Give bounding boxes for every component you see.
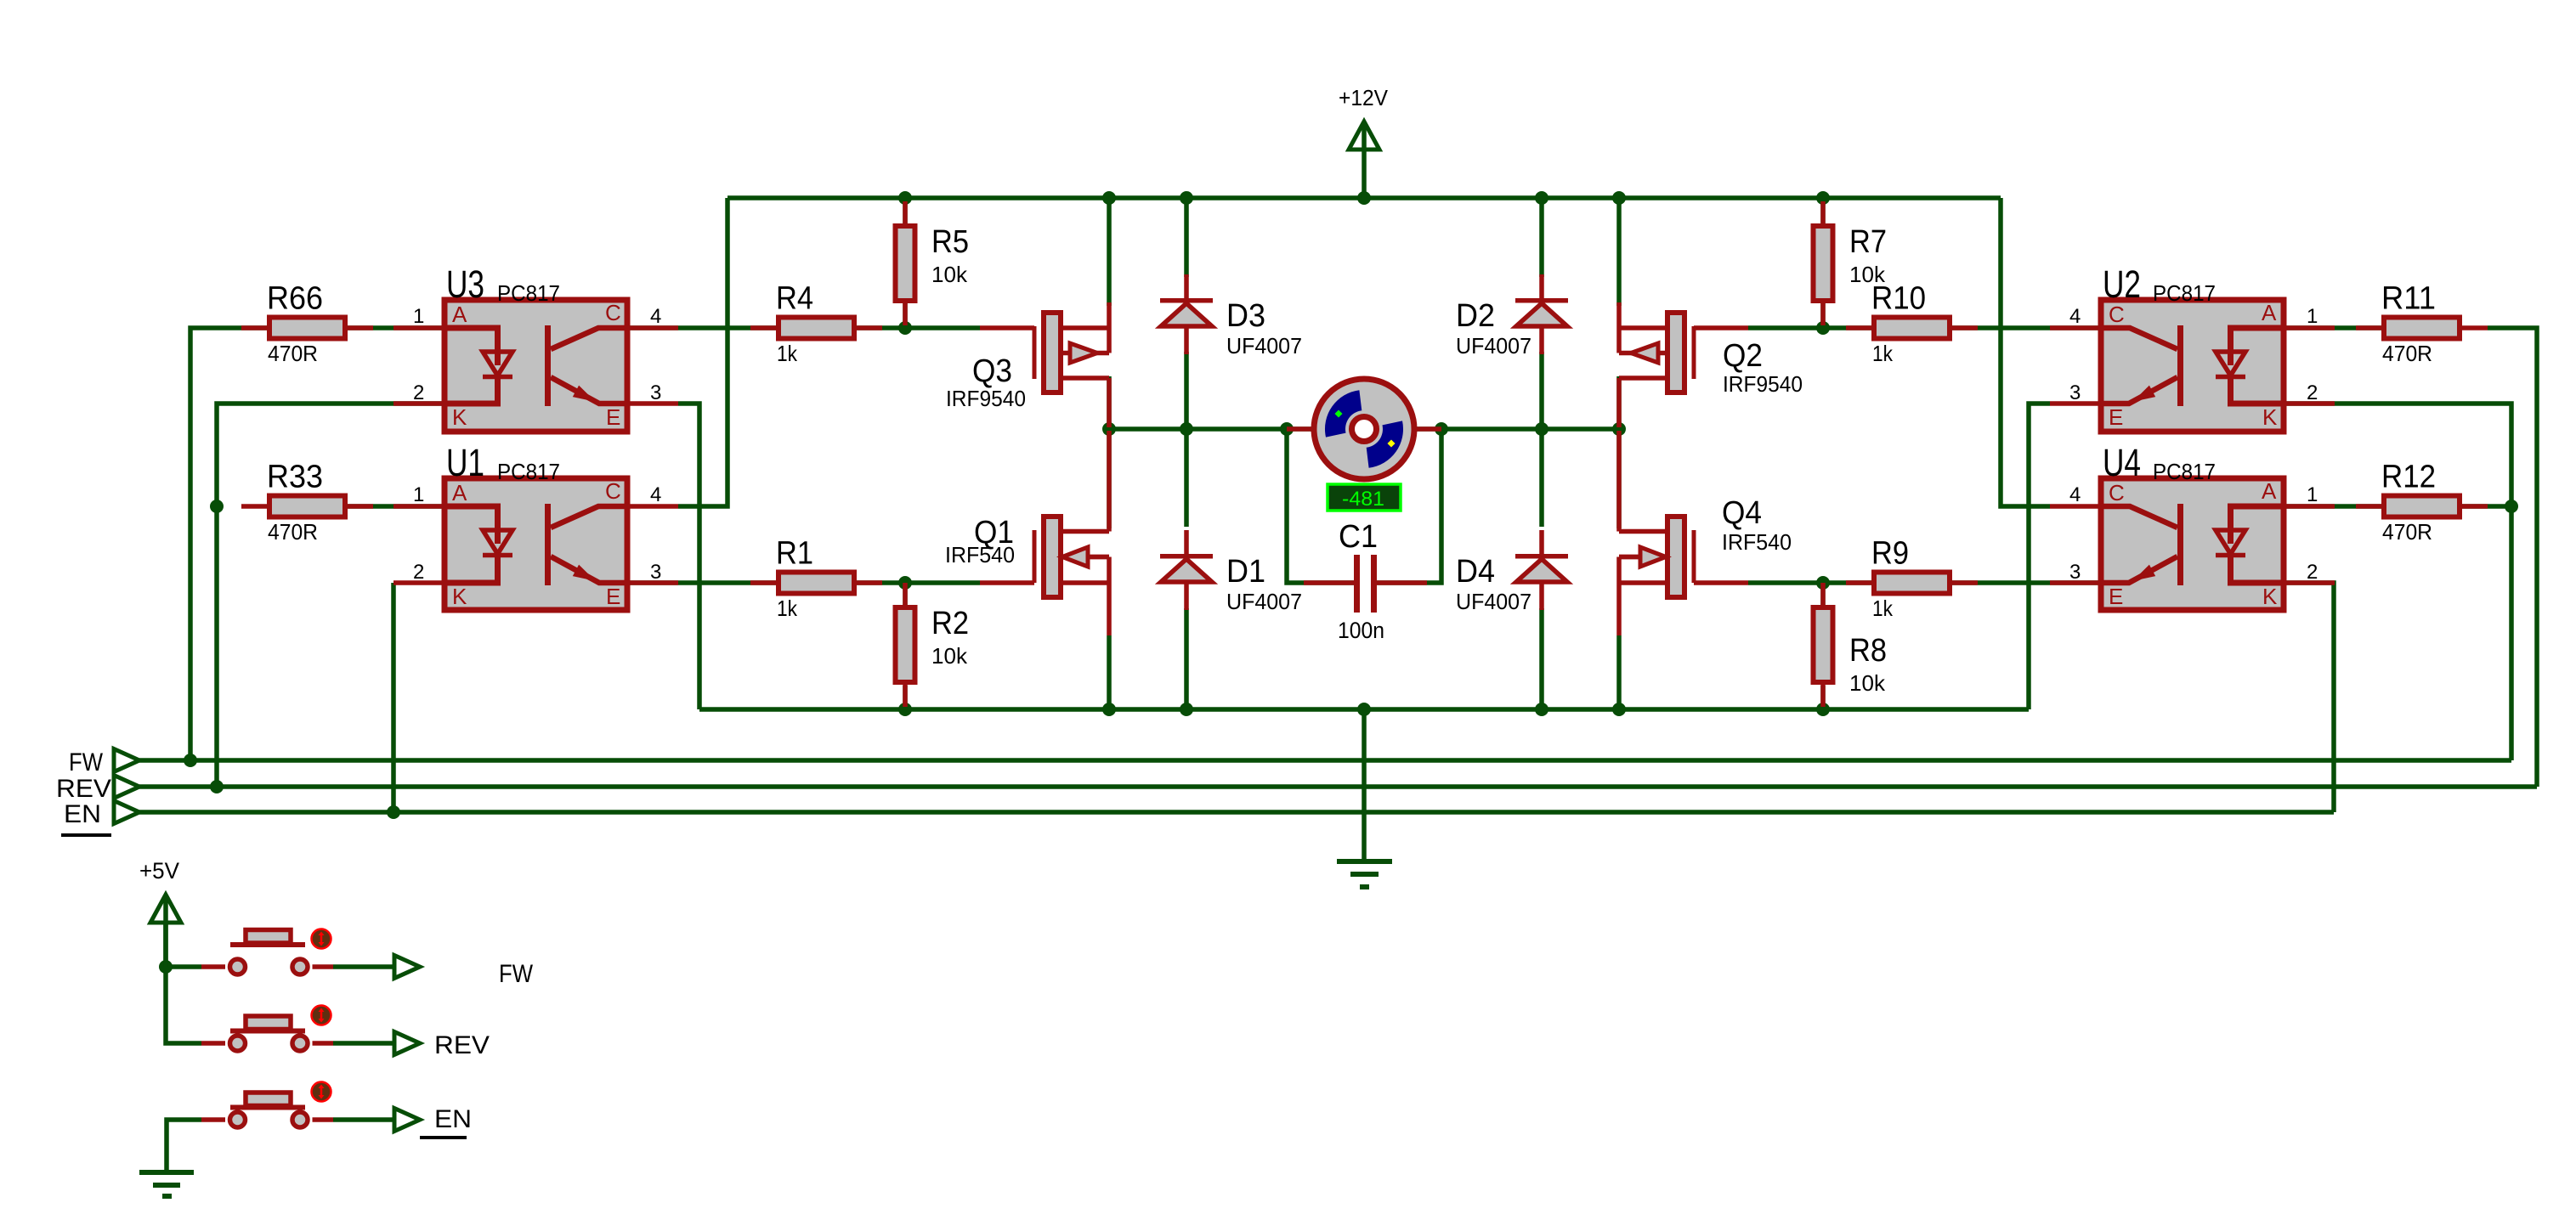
junction dot FW line	[184, 754, 197, 767]
svg-text:1k: 1k	[1872, 341, 1894, 366]
wire U2 pin2 / R12 vertical to FW end	[2284, 404, 2511, 760]
optocoupler U4 phototransistor	[2177, 504, 2183, 585]
svg-text:R66: R66	[267, 281, 323, 317]
wire U3 pin1 to R66	[347, 325, 444, 330]
svg-text:EN: EN	[64, 800, 101, 828]
transistor Q2 IRF9540	[1694, 325, 1748, 330]
wire R1 junction to Q1 gate	[857, 580, 980, 585]
wire REV line	[139, 784, 2537, 789]
resistor R11	[2356, 325, 2381, 330]
svg-text:IRF9540: IRF9540	[946, 386, 1026, 411]
wire FW button right to terminal	[333, 964, 394, 969]
svg-text:1: 1	[413, 305, 424, 328]
wire R8 bottom pin	[1820, 686, 1826, 709]
wire EN button left to ground	[167, 1120, 201, 1172]
svg-text:1k: 1k	[777, 596, 798, 621]
svg-text:1: 1	[413, 483, 424, 506]
junction dot +5V node	[159, 960, 173, 974]
wire U3 emitter to bottom rail left end	[678, 404, 699, 709]
svg-text:R4: R4	[776, 281, 813, 317]
ground button	[139, 1170, 194, 1175]
diode D2 UF4007	[1539, 274, 1544, 298]
svg-text:R8: R8	[1849, 633, 1887, 669]
wire Q3 drain vertical from rail	[1107, 198, 1112, 306]
svg-text:PC817: PC817	[2153, 459, 2216, 484]
ground main	[1337, 859, 1392, 864]
terminal REV button output	[394, 1032, 420, 1055]
svg-text:PC817: PC817	[497, 459, 560, 484]
resistor R8	[1820, 583, 1826, 605]
terminal FW button output	[394, 956, 420, 979]
svg-text:D2: D2	[1456, 298, 1495, 334]
wire U4 pin3 to R9	[1952, 580, 2101, 585]
svg-text:R33: R33	[267, 460, 323, 495]
svg-text:3: 3	[2069, 561, 2081, 584]
svg-text:A: A	[2262, 300, 2277, 325]
junction dot REV line	[210, 780, 224, 793]
svg-text:1: 1	[2307, 305, 2318, 328]
push button FW	[230, 959, 246, 974]
svg-text:4: 4	[2069, 305, 2081, 328]
svg-text:C: C	[605, 478, 621, 504]
svg-text:PC817: PC817	[2153, 280, 2216, 306]
svg-text:470R: 470R	[268, 519, 318, 545]
svg-text:10k: 10k	[931, 262, 968, 287]
wire R7 top pin	[1820, 198, 1826, 223]
svg-text:+5V: +5V	[139, 858, 179, 884]
wire Q1 source to bottom rail	[1107, 635, 1112, 709]
junction dots motor row	[1102, 422, 1116, 436]
svg-text:1: 1	[2307, 483, 2318, 506]
svg-text:R7: R7	[1849, 224, 1887, 260]
svg-text:2: 2	[413, 381, 424, 404]
svg-text:IRF540: IRF540	[945, 542, 1015, 568]
resistor R2	[903, 583, 908, 605]
motor pins	[1287, 426, 1311, 432]
wire top rail left drop to U1 pin4	[678, 198, 728, 506]
wire Q4 drain to motor node	[1616, 429, 1622, 528]
push button FW actuate marker	[312, 929, 331, 949]
svg-text:U2: U2	[2103, 263, 2141, 306]
svg-text:C1: C1	[1339, 519, 1378, 555]
wire U4 pin1 to R12	[2284, 504, 2381, 509]
terminal REV	[114, 776, 139, 799]
wire R2 bottom pin	[903, 686, 908, 709]
wire bottom rail (bridge ground bus)	[699, 707, 2029, 712]
terminal EN button output	[394, 1109, 420, 1132]
wire U3 pin4 to R4	[627, 325, 776, 330]
motor rotor dots	[1334, 409, 1342, 417]
diode D1 UF4007	[1184, 530, 1189, 554]
optocoupler U3 LED	[483, 352, 512, 376]
svg-text:D3: D3	[1226, 298, 1265, 334]
svg-text:E: E	[2109, 584, 2123, 609]
terminal FW	[114, 749, 139, 772]
wire R7 bottom pin	[1820, 303, 1826, 328]
svg-text:FW: FW	[499, 960, 534, 988]
wire Q2 drain vertical from rail	[1616, 198, 1622, 306]
svg-text:E: E	[2109, 404, 2123, 430]
svg-text:UF4007: UF4007	[1226, 589, 1302, 614]
wire Q2 gate to R7 junction	[1748, 325, 1871, 330]
wire EN line	[139, 810, 2334, 815]
wire Q4 gate to R9 junction	[1748, 580, 1871, 585]
junction dot R9/R8 gate node	[1816, 576, 1830, 590]
capacitor C1	[1304, 580, 1354, 585]
svg-text:3: 3	[2069, 381, 2081, 404]
svg-text:+12V: +12V	[1339, 85, 1389, 110]
svg-text:2: 2	[2307, 561, 2318, 584]
svg-text:4: 4	[650, 483, 661, 506]
svg-text:IRF540: IRF540	[1722, 529, 1792, 555]
diode D3 UF4007	[1184, 274, 1189, 298]
svg-text:10k: 10k	[1849, 670, 1886, 696]
wire R66 input vertical	[190, 328, 267, 760]
svg-text:REV: REV	[56, 775, 111, 803]
wire U1 pin1 to R33	[347, 504, 444, 509]
resistor R33	[241, 504, 267, 509]
svg-text:EN: EN	[434, 1105, 472, 1133]
svg-text:1k: 1k	[1872, 596, 1894, 621]
svg-text:UF4007: UF4007	[1456, 333, 1531, 359]
resistor R12	[2356, 504, 2381, 509]
svg-text:U4: U4	[2103, 441, 2141, 484]
svg-text:4: 4	[650, 305, 661, 328]
diode D4 UF4007	[1539, 530, 1544, 554]
optocoupler U1 LED	[483, 530, 512, 554]
optocoupler U4 PC817 body	[2101, 478, 2284, 610]
svg-text:-481: -481	[1342, 488, 1384, 511]
wire R2 top pin	[903, 583, 908, 605]
wire C1 left branch	[1287, 429, 1354, 583]
wire U2 pin1 to R11	[2284, 325, 2381, 330]
wire R33 / U3 pin2 vertical to REV	[217, 404, 444, 787]
optocoupler U3 PC817 body	[444, 300, 627, 432]
wire R4 junction to Q3 gate	[857, 325, 980, 330]
svg-text:UF4007: UF4007	[1456, 589, 1531, 614]
svg-text:U3: U3	[446, 263, 484, 306]
svg-text:10k: 10k	[1849, 262, 1886, 287]
optocoupler U4 pins	[2050, 504, 2101, 509]
svg-text:4: 4	[2069, 483, 2081, 506]
wire REV button right to terminal	[333, 1041, 394, 1046]
wire Q1 drain to motor node	[1107, 429, 1112, 528]
wire C1 right branch	[1377, 429, 1441, 583]
svg-text:D4: D4	[1456, 554, 1495, 590]
svg-text:2: 2	[2307, 381, 2318, 404]
svg-text:REV: REV	[434, 1031, 490, 1059]
wire D3 vertical	[1184, 198, 1189, 277]
svg-text:470R: 470R	[268, 341, 318, 366]
svg-text:K: K	[452, 404, 467, 430]
motor rotor segments	[1325, 390, 1362, 437]
svg-text:K: K	[452, 584, 467, 609]
svg-text:E: E	[606, 584, 620, 609]
junction dot R4/R5 gate node	[898, 321, 912, 335]
optocoupler U2 LED	[2216, 352, 2245, 376]
wire top rail right drop to U4 pin4	[2001, 198, 2050, 506]
resistor R10	[1846, 325, 1871, 330]
junction dot R1/R2 gate node	[898, 576, 912, 590]
optocoupler U2 pins	[2050, 325, 2101, 330]
wire ground stem from bottom rail	[1362, 709, 1367, 861]
wire R8 top pin	[1820, 583, 1826, 605]
svg-text:C: C	[605, 300, 621, 325]
svg-text:R11: R11	[2381, 281, 2436, 317]
svg-text:470R: 470R	[2382, 341, 2432, 366]
junction dots bottom rail	[898, 703, 912, 716]
optocoupler U1 phototransistor	[545, 504, 551, 585]
svg-text:1k: 1k	[777, 341, 798, 366]
svg-text:K: K	[2262, 584, 2278, 609]
svg-text:IRF9540: IRF9540	[1723, 371, 1803, 397]
junction dot R33 node	[210, 500, 224, 513]
svg-text:PC817: PC817	[497, 280, 560, 306]
junction dot R7/R10 gate node	[1816, 321, 1830, 335]
wire EN button right to terminal	[333, 1117, 394, 1122]
transistor Q3 IRF9540	[980, 325, 1034, 330]
svg-text:FW: FW	[69, 748, 104, 776]
resistor R4	[750, 325, 776, 330]
svg-text:100n: 100n	[1338, 618, 1384, 643]
wire FW line	[139, 758, 2511, 763]
svg-text:R2: R2	[931, 606, 969, 641]
optocoupler U1 PC817 body	[444, 478, 627, 610]
wire U4 pin2 vertical to EN end	[2284, 583, 2334, 812]
wire R11 right vertical to REV end	[2488, 328, 2537, 787]
svg-text:Q4: Q4	[1722, 495, 1762, 531]
svg-text:3: 3	[650, 561, 661, 584]
svg-text:R5: R5	[931, 224, 969, 260]
motor speed display	[1328, 484, 1401, 511]
push button REV	[230, 1036, 246, 1051]
wire Q4 source to bottom rail	[1616, 635, 1622, 709]
optocoupler U2 phototransistor	[2177, 325, 2183, 406]
resistor R1	[750, 580, 776, 585]
svg-text:E: E	[606, 404, 620, 430]
push button REV actuate marker	[312, 1006, 331, 1025]
resistor R66	[241, 325, 267, 330]
terminal EN	[114, 801, 139, 824]
wire U2 pin4 to R10	[1952, 325, 2101, 330]
wire FW button left	[166, 964, 201, 969]
optocoupler U3 phototransistor	[545, 325, 551, 406]
svg-text:K: K	[2262, 404, 2278, 430]
optocoupler U2 PC817 body	[2101, 300, 2284, 432]
resistor R9	[1846, 580, 1871, 585]
push button EN	[230, 1112, 246, 1127]
resistor R7	[1820, 201, 1826, 223]
svg-text:UF4007: UF4007	[1226, 333, 1302, 359]
svg-text:470R: 470R	[2382, 519, 2432, 545]
svg-text:Q2: Q2	[1723, 338, 1763, 374]
svg-text:U1: U1	[446, 441, 484, 484]
svg-text:Q3: Q3	[972, 353, 1012, 389]
svg-text:D1: D1	[1226, 554, 1265, 590]
resistor R5	[903, 201, 908, 223]
transistor Q4 IRF540	[1694, 580, 1748, 585]
wire motor row	[1109, 426, 1619, 432]
power +12V symbol	[1349, 121, 1379, 150]
optocoupler U3 pins	[393, 325, 444, 330]
junction dot EN line	[387, 805, 400, 819]
wire R5 top pin	[903, 198, 908, 223]
optocoupler U1 pins	[393, 504, 444, 509]
wire Q2 to motor node	[1616, 376, 1622, 429]
wire R12 to junction	[2462, 504, 2511, 509]
transistor Q1 IRF540	[980, 580, 1034, 585]
power +5V symbol	[150, 895, 181, 923]
svg-text:2: 2	[413, 561, 424, 584]
wire Q3 to motor node	[1107, 376, 1112, 429]
wire D2 vertical	[1539, 198, 1544, 277]
motor body	[1314, 379, 1414, 479]
junction dot R12 node	[2505, 500, 2518, 513]
push button EN actuate marker	[312, 1082, 331, 1102]
svg-text:R9: R9	[1871, 536, 1909, 572]
wire R5 bottom pin	[903, 303, 908, 328]
optocoupler U4 LED	[2216, 530, 2245, 554]
junction dots top rail	[898, 191, 912, 205]
wire D1 vertical	[1184, 429, 1189, 527]
wire U2 emitter to bottom rail right end	[2029, 404, 2050, 709]
wire D4 vertical	[1539, 429, 1544, 527]
wire U1 pin3 to R1	[627, 580, 776, 585]
svg-text:10k: 10k	[931, 643, 968, 669]
wire +5V to FW button	[163, 923, 168, 967]
wire U1 pin2 vertical to EN	[391, 583, 396, 812]
wire +12V top rail	[728, 195, 2001, 200]
svg-text:R12: R12	[2381, 460, 2436, 495]
wire +5V dot to REV button	[166, 967, 201, 1043]
svg-text:A: A	[2262, 478, 2277, 504]
svg-text:R1: R1	[776, 536, 813, 572]
motor hub	[1352, 417, 1377, 442]
svg-text:3: 3	[650, 381, 661, 404]
